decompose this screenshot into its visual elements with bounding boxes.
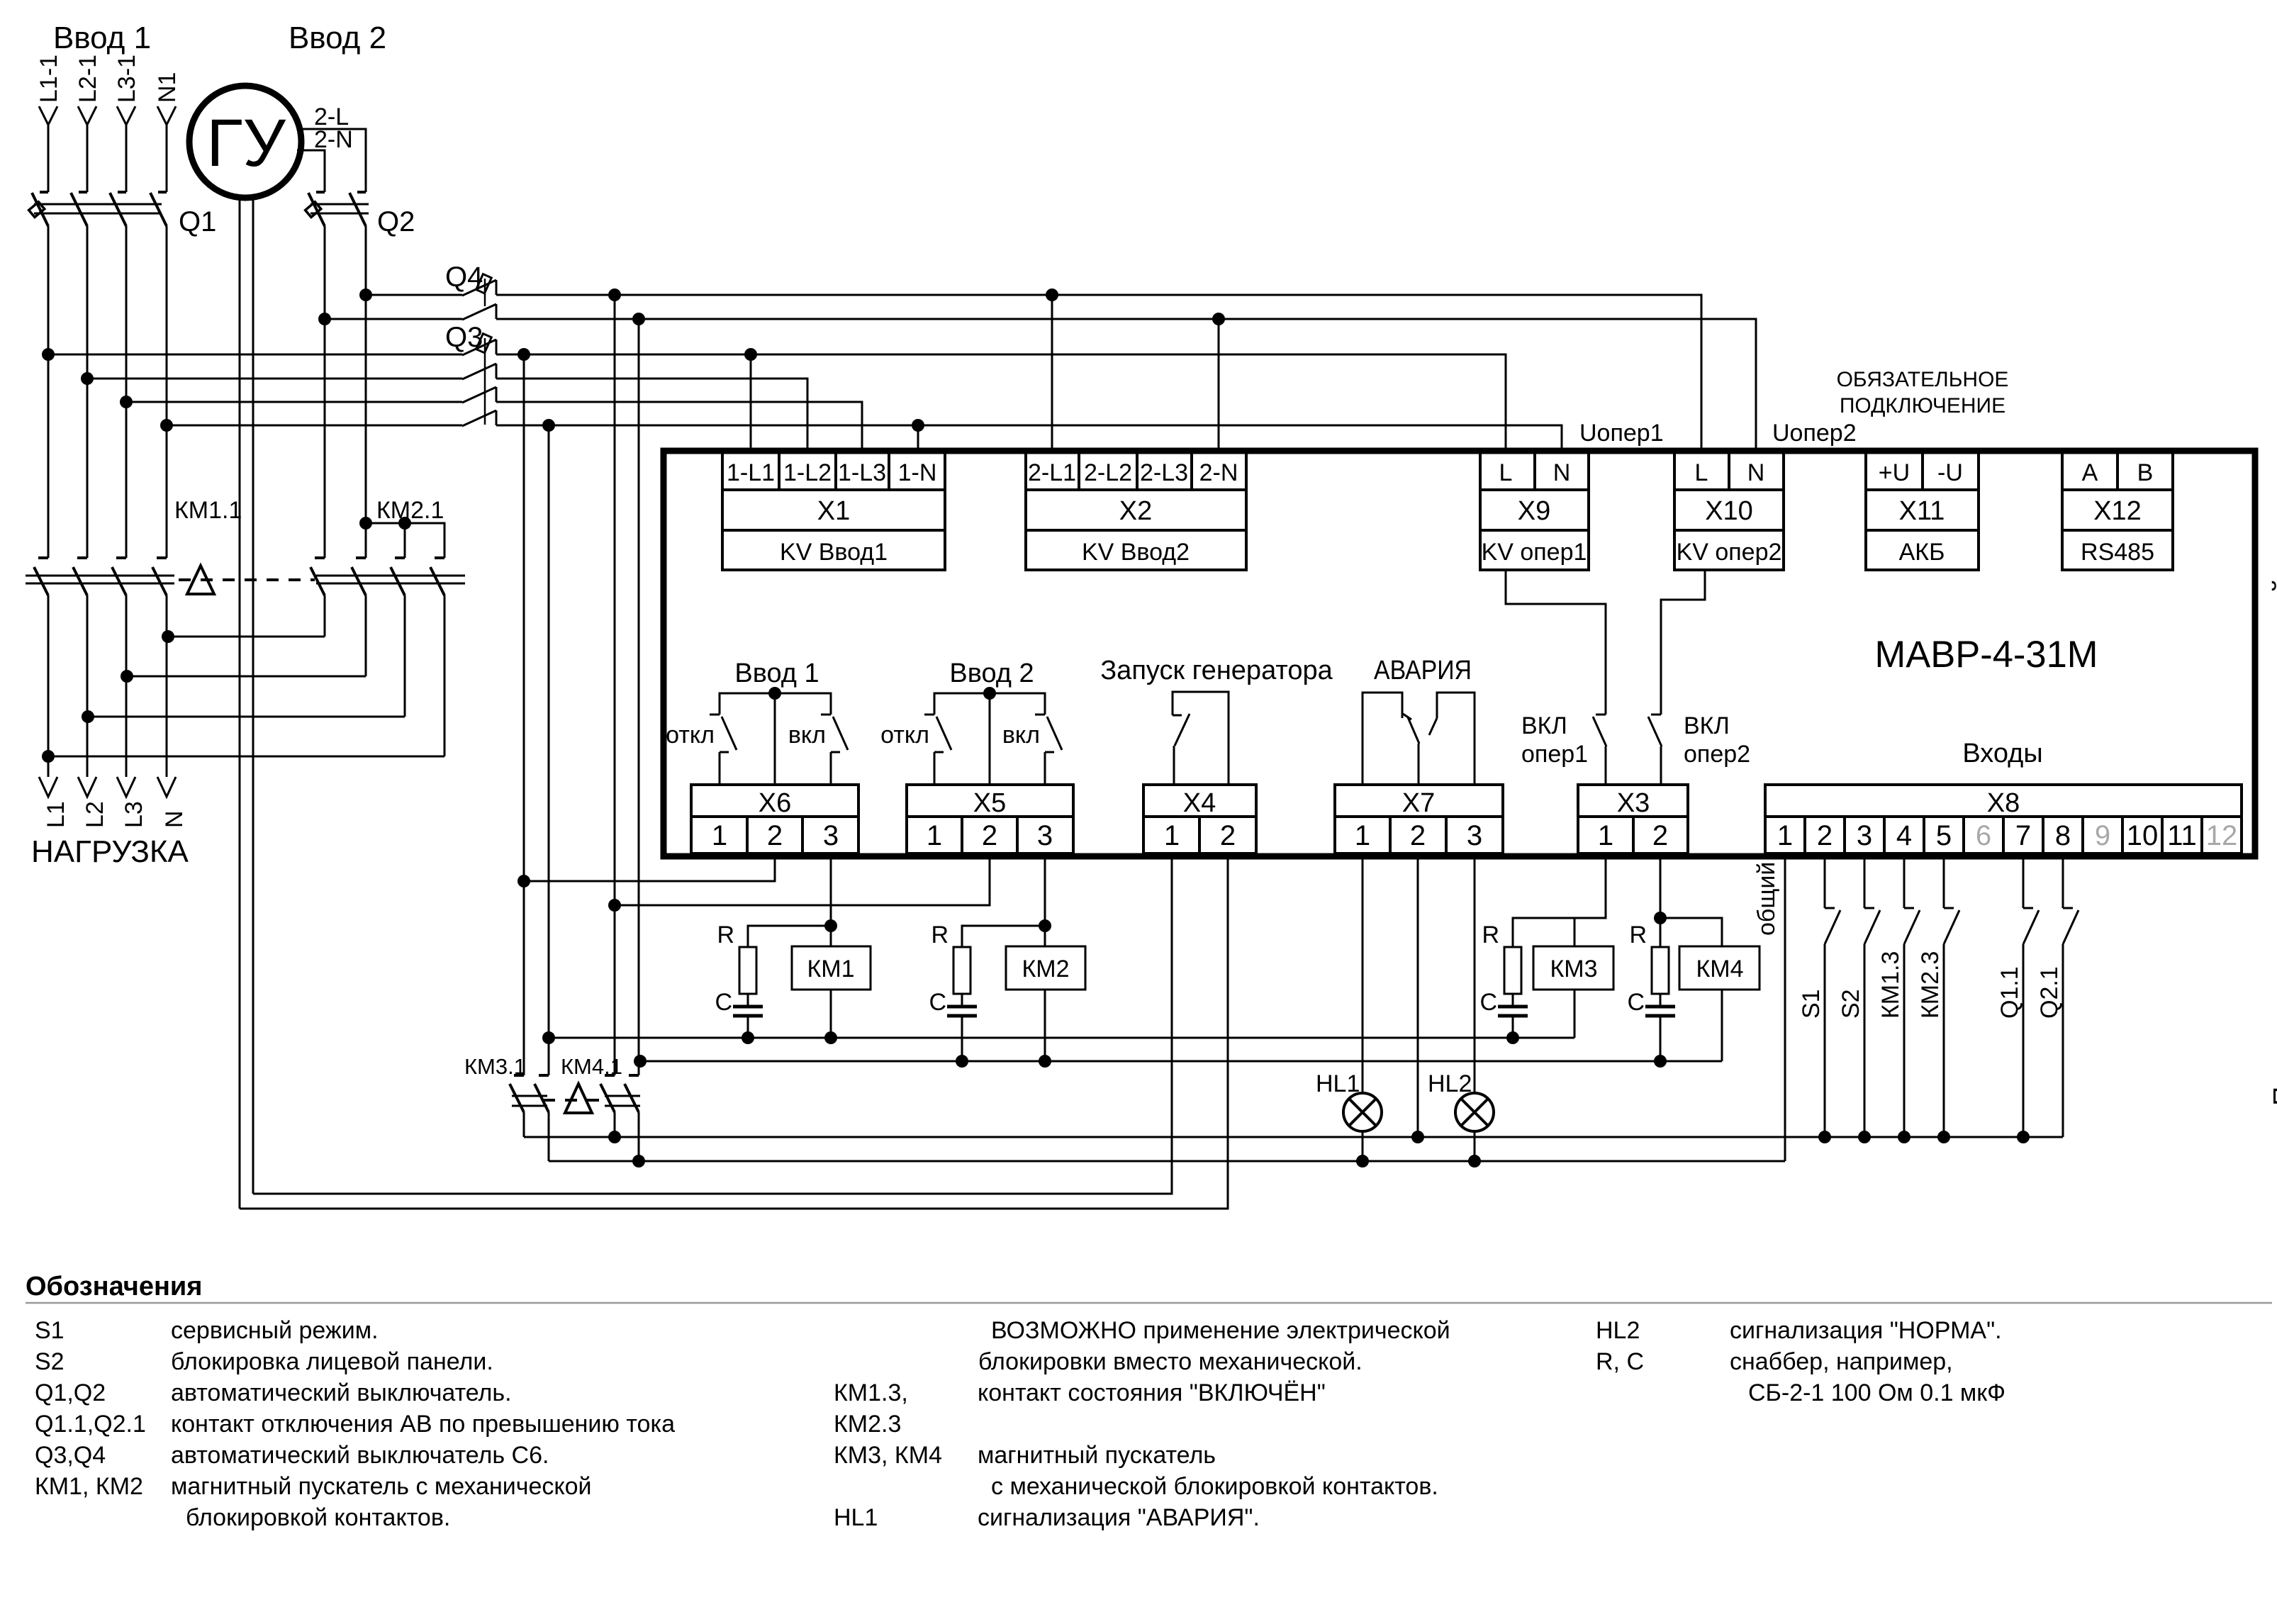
svg-text:Х4: Х4: [1183, 788, 1216, 818]
svg-text:Q1.1,Q2.1: Q1.1,Q2.1: [35, 1411, 146, 1438]
svg-text:опер1: опер1: [1521, 741, 1588, 768]
svg-text:HL2: HL2: [1596, 1317, 1640, 1344]
svg-text:1: 1: [1355, 820, 1370, 851]
svg-text:+U: +U: [1879, 459, 1910, 486]
svg-text:Ввод 2: Ввод 2: [949, 659, 1034, 688]
svg-text:A: A: [2082, 459, 2098, 486]
svg-text:C: C: [929, 989, 946, 1016]
svg-text:8: 8: [2055, 820, 2071, 851]
svg-text:Х5: Х5: [973, 788, 1006, 818]
svg-text:HL1: HL1: [834, 1504, 878, 1531]
svg-text:S2: S2: [1837, 989, 1864, 1019]
svg-text:КМ2.3: КМ2.3: [834, 1411, 901, 1438]
svg-text:КМ2.3: КМ2.3: [1917, 951, 1944, 1019]
svg-text:КМ1.1: КМ1.1: [174, 497, 242, 524]
svg-text:с механической блокировкой кон: с механической блокировкой контактов.: [991, 1473, 1438, 1500]
svg-text:Uопер1: Uопер1: [1579, 420, 1664, 447]
svg-text:2-L2: 2-L2: [1084, 459, 1132, 486]
svg-text:Х10: Х10: [1705, 496, 1753, 526]
svg-text:1-L2: 1-L2: [783, 459, 832, 486]
svg-text:S1: S1: [35, 1317, 65, 1344]
svg-text:Х6: Х6: [759, 788, 791, 818]
svg-text:4: 4: [1896, 820, 1912, 851]
svg-text:вкл: вкл: [1002, 722, 1040, 749]
svg-text:Ввод 2: Ввод 2: [289, 21, 386, 55]
svg-text:2: 2: [767, 820, 783, 851]
svg-text:Q1.1: Q1.1: [1996, 966, 2023, 1019]
svg-text:контакт отключения АВ по превы: контакт отключения АВ по превышению тока: [171, 1411, 675, 1438]
svg-text:Ввод 1: Ввод 1: [53, 21, 151, 55]
svg-text:сервисный режим.: сервисный режим.: [171, 1317, 379, 1344]
svg-text:KV опер2: KV опер2: [1677, 539, 1782, 566]
svg-text:КМ3: КМ3: [1550, 956, 1597, 982]
svg-text:N: N: [1747, 459, 1765, 486]
svg-text:6: 6: [1976, 820, 1991, 851]
svg-text:сигнализация "НОРМА".: сигнализация "НОРМА".: [1730, 1317, 2002, 1344]
svg-text:Входы: Входы: [1962, 739, 2042, 768]
svg-text:Q1: Q1: [179, 206, 216, 237]
svg-text:L2-1: L2-1: [74, 55, 101, 103]
svg-text:контакт состояния "ВКЛЮЧЁН": контакт состояния "ВКЛЮЧЁН": [978, 1379, 1326, 1406]
svg-text:L: L: [1499, 459, 1513, 486]
svg-text:Q3,Q4: Q3,Q4: [35, 1442, 106, 1469]
svg-text:1: 1: [712, 820, 727, 851]
svg-text:3: 3: [1467, 820, 1482, 851]
svg-text:S1: S1: [1798, 989, 1825, 1019]
svg-text:автоматический выключатель С6.: автоматический выключатель С6.: [171, 1442, 549, 1469]
svg-text:2: 2: [1817, 820, 1833, 851]
svg-text:АКБ: АКБ: [1899, 539, 1945, 566]
svg-text:КМ2: КМ2: [1022, 956, 1069, 982]
svg-text:АВАРИЯ: АВАРИЯ: [1374, 656, 1472, 685]
svg-text:C: C: [1627, 989, 1645, 1016]
svg-text:откл: откл: [880, 722, 929, 749]
svg-text:Q2.1: Q2.1: [2036, 966, 2063, 1019]
svg-text:1: 1: [927, 820, 942, 851]
svg-text:вкл: вкл: [788, 722, 826, 749]
svg-text:сигнализация "АВАРИЯ".: сигнализация "АВАРИЯ".: [978, 1504, 1260, 1531]
svg-text:B: B: [2137, 459, 2154, 486]
svg-text:1-L1: 1-L1: [727, 459, 775, 486]
svg-text:KV Ввод1: KV Ввод1: [780, 539, 888, 566]
svg-text:откл: откл: [666, 722, 715, 749]
svg-text:КМ2.1: КМ2.1: [376, 497, 444, 524]
svg-text:2-L3: 2-L3: [1140, 459, 1188, 486]
svg-text:R: R: [931, 922, 949, 948]
svg-text:3: 3: [1037, 820, 1053, 851]
svg-text:КМ4: КМ4: [1696, 956, 1743, 982]
svg-text:блокировкой контактов.: блокировкой контактов.: [186, 1504, 450, 1531]
svg-text:Х9: Х9: [1518, 496, 1550, 526]
svg-text:ГУ: ГУ: [206, 106, 286, 181]
svg-text:НАГРУЗКА: НАГРУЗКА: [31, 834, 189, 869]
svg-text:1: 1: [1598, 820, 1613, 851]
svg-text:блокировка лицевой панели.: блокировка лицевой панели.: [171, 1348, 493, 1375]
svg-text:КМ3, КМ4: КМ3, КМ4: [834, 1442, 942, 1469]
svg-text:11: 11: [2167, 820, 2197, 851]
svg-text:блокировки вместо механической: блокировки вместо механической.: [978, 1348, 1363, 1375]
svg-text:КМ1.3,: КМ1.3,: [834, 1379, 908, 1406]
svg-text:ОБЯЗАТЕЛЬНОЕ: ОБЯЗАТЕЛЬНОЕ: [1837, 368, 2009, 391]
svg-text:R: R: [1629, 922, 1647, 948]
svg-text:КМ1: КМ1: [807, 956, 854, 982]
svg-text:Q1,Q2: Q1,Q2: [35, 1379, 106, 1406]
svg-text:10: 10: [2127, 820, 2159, 851]
svg-text:N: N: [161, 810, 188, 828]
svg-text:N1: N1: [154, 72, 181, 103]
svg-text:3: 3: [823, 820, 839, 851]
svg-text:R, C: R, C: [1596, 1348, 1644, 1375]
svg-text:Q2: Q2: [377, 206, 415, 237]
svg-text:Х3: Х3: [1617, 788, 1650, 818]
svg-text:C: C: [1479, 989, 1497, 1016]
svg-text:Х12: Х12: [2093, 496, 2142, 526]
svg-text:КМ1.3: КМ1.3: [1877, 951, 1904, 1019]
svg-text:Х1: Х1: [817, 496, 850, 526]
svg-text:общий: общий: [1753, 862, 1780, 936]
svg-text:2: 2: [1652, 820, 1668, 851]
svg-text:HL1: HL1: [1316, 1070, 1360, 1097]
svg-text:2: 2: [1220, 820, 1236, 851]
svg-text:L3-1: L3-1: [113, 55, 140, 103]
svg-text:KV опер1: KV опер1: [1482, 539, 1587, 566]
svg-text:R: R: [717, 922, 734, 948]
svg-text:Х8: Х8: [1987, 788, 2020, 818]
svg-text:N: N: [1553, 459, 1571, 486]
svg-text:-U: -U: [1937, 459, 1963, 486]
svg-text:Х2: Х2: [1119, 496, 1152, 526]
svg-text:опер2: опер2: [1684, 741, 1750, 768]
svg-text:7: 7: [2015, 820, 2031, 851]
svg-text:Uопер2: Uопер2: [1772, 420, 1857, 447]
svg-text:L1: L1: [43, 801, 69, 828]
svg-text:ВКЛ: ВКЛ: [1684, 712, 1730, 739]
svg-text:КМ1, КМ2: КМ1, КМ2: [35, 1473, 143, 1500]
svg-text:2: 2: [1410, 820, 1426, 851]
svg-text:1-L3: 1-L3: [838, 459, 886, 486]
svg-text:RS485: RS485: [2081, 539, 2154, 566]
svg-text:2-L1: 2-L1: [1028, 459, 1076, 486]
svg-text:Х7: Х7: [1402, 788, 1435, 818]
svg-text:9: 9: [2095, 820, 2110, 851]
svg-text:L1-1: L1-1: [35, 55, 62, 103]
svg-text:Обозначения: Обозначения: [26, 1272, 202, 1301]
svg-text:автоматический выключатель.: автоматический выключатель.: [171, 1379, 512, 1406]
svg-text:L2: L2: [82, 801, 108, 828]
svg-text:12: 12: [2206, 820, 2238, 851]
svg-text:KV Ввод2: KV Ввод2: [1082, 539, 1190, 566]
svg-text:снаббер, например,: снаббер, например,: [1730, 1348, 1953, 1375]
svg-text:ПОДКЛЮЧЕНИЕ: ПОДКЛЮЧЕНИЕ: [1840, 394, 2005, 418]
svg-text:Запуск генератора: Запуск генератора: [1100, 656, 1333, 685]
svg-text:2-N: 2-N: [1199, 459, 1238, 486]
svg-text:L3: L3: [121, 801, 147, 828]
svg-text:1: 1: [1164, 820, 1180, 851]
svg-text:ВОЗМОЖНО применение электричес: ВОЗМОЖНО применение электрической: [991, 1317, 1450, 1344]
svg-text:ВКЛ: ВКЛ: [1521, 712, 1567, 739]
svg-text:2: 2: [982, 820, 997, 851]
svg-text:магнитный пускатель: магнитный пускатель: [978, 1442, 1216, 1469]
svg-text:Х11: Х11: [1899, 496, 1945, 526]
svg-text:Ввод 1: Ввод 1: [734, 659, 819, 688]
svg-text:R: R: [1482, 922, 1499, 948]
svg-text:3: 3: [1857, 820, 1872, 851]
svg-text:Показано подключение сигнальны: Показано подключение сигнальных цепей: [2268, 578, 2277, 1106]
svg-text:S2: S2: [35, 1348, 65, 1375]
svg-text:2-N: 2-N: [314, 126, 353, 153]
svg-text:L: L: [1695, 459, 1708, 486]
svg-text:1-N: 1-N: [898, 459, 937, 486]
svg-text:магнитный пускатель с механиче: магнитный пускатель с механической: [171, 1473, 592, 1500]
svg-text:МАВР-4-31М: МАВР-4-31М: [1875, 634, 2098, 676]
svg-text:1: 1: [1777, 820, 1793, 851]
svg-text:5: 5: [1936, 820, 1952, 851]
svg-text:HL2: HL2: [1428, 1070, 1472, 1097]
svg-text:СБ-2-1 100 Ом 0.1 мкФ: СБ-2-1 100 Ом 0.1 мкФ: [1748, 1379, 2005, 1406]
svg-text:C: C: [715, 989, 732, 1016]
